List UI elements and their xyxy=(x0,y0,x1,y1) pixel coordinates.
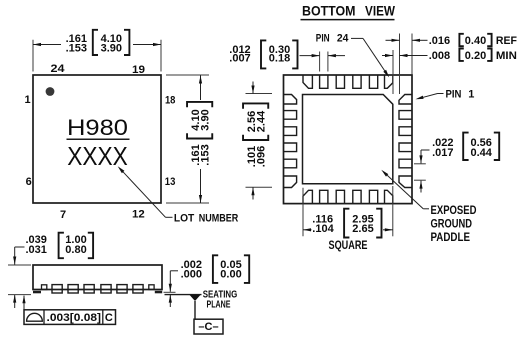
dimension .116/.104 [2.95/2.65] SQUARE (paddle size) xyxy=(303,186,393,252)
dimension .161/.153 [4.10/3.90] horizontal (top view width) xyxy=(33,30,161,72)
svg-text:EXPOSED: EXPOSED xyxy=(431,205,477,217)
svg-text:0.44: 0.44 xyxy=(470,147,492,159)
svg-text:C: C xyxy=(105,312,113,324)
dimension .016 [0.40] REF (corner terminal width) xyxy=(386,34,518,95)
svg-text:13: 13 xyxy=(165,176,176,188)
title BOTTOM VIEW xyxy=(301,3,396,19)
svg-text:MIN: MIN xyxy=(496,50,517,62)
svg-text:.153: .153 xyxy=(200,144,212,165)
dimension .012/.007 [0.30/0.18] (terminal width) xyxy=(229,40,345,71)
svg-text:1: 1 xyxy=(468,88,474,100)
side view body outline xyxy=(33,265,162,290)
bottom terminal row (pins 7-12) xyxy=(303,190,393,203)
svg-text:.104: .104 xyxy=(312,223,334,235)
svg-text:.003[0.08]: .003[0.08] xyxy=(47,312,102,324)
svg-text:.096: .096 xyxy=(256,146,268,167)
svg-text:6: 6 xyxy=(26,176,32,188)
svg-text:24: 24 xyxy=(337,33,349,45)
left terminal column (pins 1-6 mirrored) xyxy=(284,95,297,188)
side view pad row xyxy=(52,285,143,293)
svg-text:H980: H980 xyxy=(67,115,128,140)
seating plane line and datum triangle xyxy=(8,295,202,320)
svg-text:18: 18 xyxy=(165,95,176,107)
svg-text:.000: .000 xyxy=(181,268,202,280)
dimension .022/.017 [0.56/0.44] (corner terminal) xyxy=(414,133,499,193)
marking text H980 (underlined) xyxy=(67,115,130,140)
leader LOT NUMBER xyxy=(118,166,239,224)
marking text XXXX (lot number) xyxy=(67,141,128,171)
svg-text:LOT: LOT xyxy=(174,213,195,225)
leader EXPOSED GROUND PADDLE xyxy=(381,170,476,244)
side view left edge pad xyxy=(33,291,41,294)
svg-text:NUMBER: NUMBER xyxy=(199,213,239,225)
leader PIN 24 xyxy=(316,33,389,78)
svg-text:3.90: 3.90 xyxy=(101,43,122,55)
svg-text:PIN: PIN xyxy=(316,33,330,45)
svg-text:2.65: 2.65 xyxy=(352,223,373,235)
leader PIN 1 xyxy=(416,88,475,100)
svg-text:2.44: 2.44 xyxy=(256,110,268,132)
label SEATING PLANE xyxy=(203,289,238,310)
top terminal row (pins 24-19) xyxy=(303,75,393,88)
svg-text:3.90: 3.90 xyxy=(200,109,212,130)
dimension .039/.031 [1.00/0.80] (body height) xyxy=(8,233,93,308)
svg-text:SQUARE: SQUARE xyxy=(329,240,368,252)
feature control frame .003[0.08] C xyxy=(22,295,115,324)
svg-text:0.18: 0.18 xyxy=(269,53,290,65)
datum box -C- xyxy=(194,319,223,334)
svg-text:.016: .016 xyxy=(429,35,450,47)
dimension .002/.000 [0.05/0.00] (standoff) xyxy=(164,255,250,307)
svg-text:.031: .031 xyxy=(25,244,46,256)
svg-text:0.40: 0.40 xyxy=(465,35,486,47)
right terminal column (pins 1-6) xyxy=(399,95,412,188)
side view small pad left xyxy=(42,285,47,290)
dimension .101/.096 [2.56/2.44] vertical (terminal row span) xyxy=(243,82,272,200)
top view package outline xyxy=(33,75,161,203)
svg-text:REF: REF xyxy=(496,35,517,47)
svg-text:1: 1 xyxy=(24,94,30,106)
svg-text:19: 19 xyxy=(132,64,145,76)
svg-text:PLANE: PLANE xyxy=(207,299,231,310)
dimension .161/.153 [4.10/3.90] vertical (top view height) xyxy=(166,75,212,203)
svg-text:24: 24 xyxy=(51,63,66,75)
svg-text:0.20: 0.20 xyxy=(465,50,486,62)
svg-text:XXXX: XXXX xyxy=(67,141,128,171)
svg-text:0.00: 0.00 xyxy=(220,268,241,280)
svg-text:BOTTOM: BOTTOM xyxy=(302,3,356,18)
svg-text:GROUND: GROUND xyxy=(431,219,473,231)
side view right edge pad xyxy=(155,291,162,294)
side view small pad right xyxy=(149,285,154,290)
svg-text:.007: .007 xyxy=(229,53,250,65)
svg-text:PADDLE: PADDLE xyxy=(431,232,471,244)
svg-text:12: 12 xyxy=(132,208,145,220)
svg-text:VIEW: VIEW xyxy=(365,3,395,18)
svg-text:.008: .008 xyxy=(429,50,450,62)
svg-text:.017: .017 xyxy=(432,147,453,159)
dimension .008 [0.20] MIN (paddle to terminal gap) xyxy=(382,49,517,95)
svg-text:0.80: 0.80 xyxy=(65,244,86,256)
svg-text:.153: .153 xyxy=(66,43,87,55)
svg-text:–C–: –C– xyxy=(198,321,218,333)
svg-text:PIN: PIN xyxy=(446,88,462,100)
svg-text:7: 7 xyxy=(60,209,66,221)
bottom view package outline xyxy=(284,75,413,204)
pin 1 index dot xyxy=(46,87,55,96)
exposed paddle outline (chamfered pin-1 corner) xyxy=(303,95,393,184)
